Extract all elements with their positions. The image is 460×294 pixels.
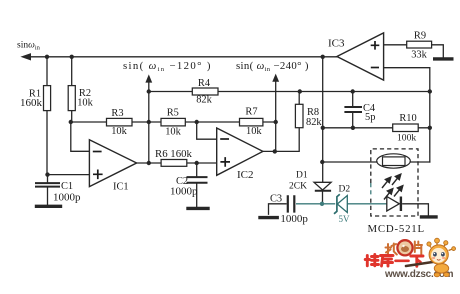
svg-text:R10: R10 [399,113,416,124]
svg-text:D1: D1 [296,171,308,181]
svg-text:100k: 100k [397,133,416,144]
svg-text:IC2: IC2 [237,169,254,181]
svg-text:10k: 10k [165,127,181,138]
svg-text:sin( ωin −240° ): sin( ωin −240° ) [236,60,309,73]
svg-text:MCD-521L: MCD-521L [368,223,425,235]
svg-text:10k: 10k [111,126,127,137]
svg-text:2CK: 2CK [289,182,307,192]
svg-text:IC3: IC3 [328,38,345,50]
svg-text:33k: 33k [411,50,427,61]
svg-text:160k: 160k [20,97,43,109]
svg-text:R5: R5 [167,107,179,118]
svg-text:R3: R3 [111,108,123,119]
svg-text:R6 160k: R6 160k [155,148,192,160]
svg-text:5p: 5p [365,112,375,123]
svg-text:IC1: IC1 [113,182,129,193]
svg-text:C3: C3 [270,194,282,205]
svg-text:1000p: 1000p [53,192,81,204]
svg-text:82k: 82k [196,95,212,106]
svg-text:1000p: 1000p [280,213,308,225]
svg-text:10k: 10k [77,98,93,109]
svg-text:R4: R4 [198,78,211,89]
svg-text:R7: R7 [245,107,257,118]
svg-text:D2: D2 [339,185,351,195]
svg-text:1000p: 1000p [170,185,198,197]
svg-text:5V: 5V [339,214,351,224]
svg-text:R9: R9 [414,31,426,42]
svg-text:10k: 10k [246,126,262,137]
svg-text:C1: C1 [61,181,73,192]
svg-text:82k: 82k [306,117,322,128]
svg-text:sin( ωin −120° ): sin( ωin −120° ) [123,60,212,73]
